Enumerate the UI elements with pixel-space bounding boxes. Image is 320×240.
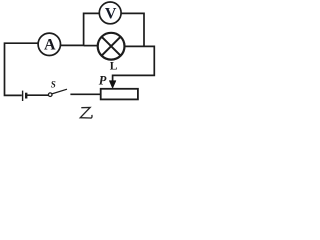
- wire rheostat to switch: [70, 93, 100, 95]
- wire junction up to voltmeter branch: [84, 13, 100, 46]
- svg-text:V: V: [105, 5, 117, 22]
- lamp L: [98, 33, 125, 60]
- svg-text:L: L: [110, 60, 118, 72]
- lamp cross: [102, 37, 121, 56]
- wire voltmeter right down to lamp wire: [121, 13, 144, 46]
- wire switch to battery: [27, 94, 49, 96]
- wire junction to lamp: [84, 45, 98, 47]
- wire lamp right, down right side, to rheostat slider: [113, 46, 155, 81]
- wire ammeter to junction: [61, 44, 84, 46]
- wire left loop: mid-left horizontal + left vertical + bottom-left horizontal: [5, 43, 38, 95]
- rheostat R1 body: [101, 89, 138, 100]
- switch S1 blade: [52, 89, 67, 94]
- switch pivot: [48, 93, 52, 97]
- slider arrowhead: [109, 81, 116, 89]
- voltmeter V1: [99, 2, 121, 24]
- ammeter A1: [38, 33, 60, 55]
- battery B1 short plate: [25, 93, 27, 99]
- caption 乙 (drawn glyph): [80, 108, 92, 119]
- battery B1 long plate: [22, 91, 24, 101]
- svg-text:A: A: [44, 37, 56, 54]
- svg-text:P: P: [99, 73, 107, 87]
- svg-text:S: S: [51, 80, 56, 90]
